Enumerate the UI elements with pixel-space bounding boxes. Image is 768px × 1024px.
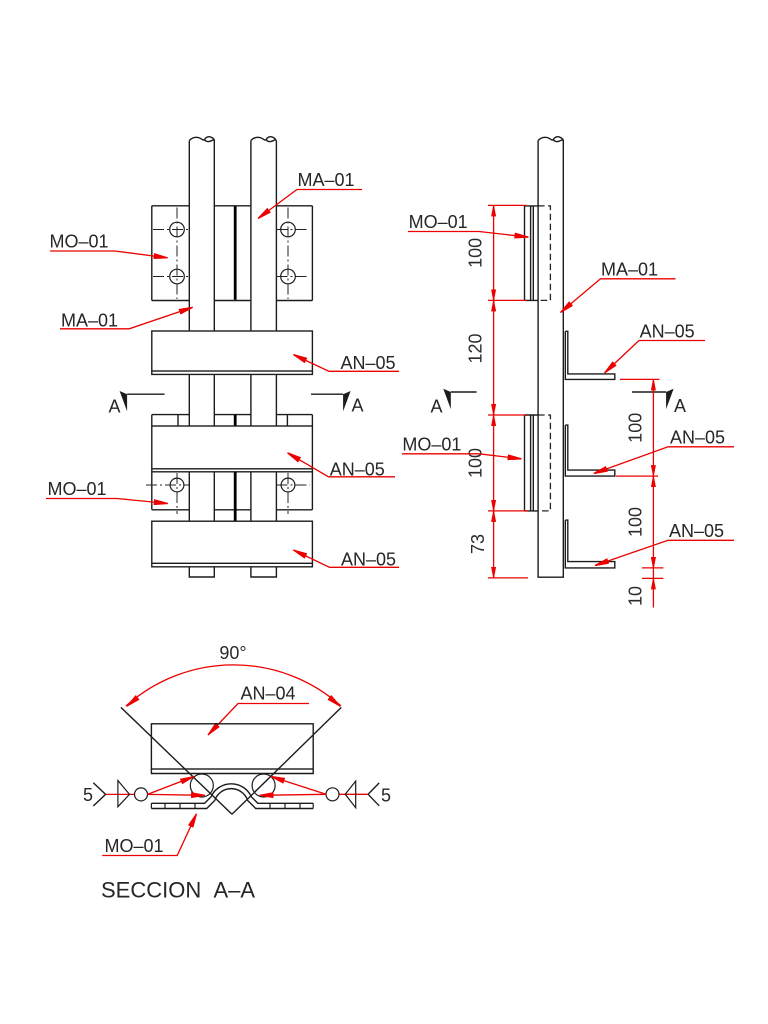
label AN-04 [208, 684, 309, 736]
svg-text:100: 100 [626, 507, 646, 537]
left dimension chain line [493, 205, 495, 578]
label MA-01 (side view) [561, 260, 676, 313]
label AN-05 #1 [293, 353, 399, 373]
label MO-01 (upper left, points to top plate) [50, 232, 168, 258]
svg-text:MO–01: MO–01 [105, 836, 164, 856]
label MA-01 (lower left, points to left bar) [60, 307, 193, 330]
section cut line A-A right flag [311, 391, 364, 416]
svg-text:100: 100 [626, 413, 646, 443]
dim arrows 100 right top [652, 380, 654, 391]
dim arrows 10 (outside) [652, 558, 654, 568]
lower clamp plate MO-01 visible band with bolts [152, 472, 313, 510]
svg-text:10: 10 [626, 586, 646, 606]
svg-text:100: 100 [466, 238, 486, 268]
plate MO-01 upper hidden leaf (dashed) [538, 206, 550, 301]
centerlines lower plate [146, 473, 310, 514]
weld bead left [190, 774, 213, 797]
svg-text:MA–01: MA–01 [298, 170, 355, 190]
joint seam heavy line lower [234, 472, 237, 521]
svg-text:MO–01: MO–01 [409, 212, 468, 232]
bolt hole lower-left [170, 478, 184, 492]
weld leaders right [271, 777, 326, 795]
bent plate MO-01 outer edge [151, 784, 313, 804]
weld symbol right fishtail [368, 783, 379, 806]
angle AN-05 top (side view L-profile) [565, 331, 615, 379]
svg-text:SECCION A–A: SECCION A–A [101, 878, 255, 903]
svg-text:5: 5 [381, 786, 391, 806]
weld symbol right circle [326, 788, 339, 801]
right dimension chain extension lines [616, 379, 663, 578]
svg-text:AN–05: AN–05 [670, 428, 725, 448]
bent plate MO-01 inner edge [151, 789, 313, 809]
plate MO-01 lower hidden leaf (dashed) [538, 415, 550, 511]
svg-text:A: A [352, 396, 364, 416]
weld symbol left fillet triangle [118, 781, 130, 807]
joint seam heavy line through strip [234, 415, 237, 426]
label AN-05 #3 [293, 550, 399, 570]
bevel edge left (45 deg line) [121, 707, 232, 814]
90 degree angle arc [126, 665, 341, 706]
label MO-01 #2 (points to lower plate) [46, 479, 168, 504]
label AN-05 (side view middle) [594, 428, 734, 474]
section cut line A-A right flag (side view) [632, 389, 686, 416]
bolt hole mid-right [281, 269, 296, 284]
bolt hole top-left [170, 222, 185, 237]
bolt hole mid-left [170, 269, 185, 284]
label MO-01 (section) [102, 814, 196, 856]
svg-text:90°: 90° [219, 643, 246, 663]
bolt hole top-right [281, 222, 296, 237]
bar MA-01 (side view) [538, 137, 563, 577]
label MO-01 (side view lower) [402, 435, 522, 459]
svg-text:AN–05: AN–05 [669, 521, 724, 541]
weld symbol left circle [135, 788, 148, 801]
bar MA-01 right (front view) [251, 137, 277, 577]
svg-text:AN–05: AN–05 [341, 550, 396, 570]
svg-text:AN–05: AN–05 [341, 353, 396, 373]
svg-text:A: A [674, 396, 686, 416]
section cut line A-A left flag (side view) [431, 389, 477, 417]
label AN-05 (side view bottom) [595, 521, 734, 566]
svg-text:100: 100 [466, 448, 486, 478]
label MO-01 (side view upper) [408, 212, 528, 237]
angle AN-05 middle (side view L-profile) [565, 425, 615, 476]
bevel edge right (45 deg line) [232, 707, 341, 814]
weld leaders left [148, 777, 195, 795]
lower clamp plates MO-01 top edge strip (front view) [152, 415, 313, 426]
svg-text:120: 120 [466, 333, 486, 363]
bolt hole lower-right [281, 478, 295, 492]
svg-text:73: 73 [468, 534, 488, 554]
svg-text:MA–01: MA–01 [601, 260, 658, 280]
dim arrows 120 [493, 301, 495, 312]
angle AN-05 #3 (front view) [152, 521, 313, 567]
plate MO-01 upper (side view, visible leaves) [525, 206, 539, 301]
weld symbol right leader line [340, 793, 369, 795]
weld bead right [252, 774, 275, 797]
right dimension chain line [652, 379, 654, 607]
section cut line A-A left flag [109, 391, 165, 417]
svg-text:AN–04: AN–04 [241, 684, 296, 704]
svg-text:MO–01: MO–01 [402, 435, 461, 455]
svg-text:5: 5 [83, 785, 93, 805]
angle AN-05 #1 (front view) [152, 331, 313, 374]
svg-text:MO–01: MO–01 [50, 232, 109, 252]
plate MO-01 lower (side view, visible leaves) [525, 415, 539, 511]
label MA-01 (top, points to right bar) [258, 170, 362, 219]
plate AN-04 (section) [151, 724, 313, 774]
svg-text:MA–01: MA–01 [61, 311, 118, 331]
svg-text:A: A [431, 397, 443, 417]
svg-text:AN–05: AN–05 [640, 322, 695, 342]
label AN-05 #2 [288, 453, 396, 480]
plate MO-01 top clamp (front view) [152, 206, 313, 301]
svg-text:MO–01: MO–01 [48, 479, 107, 499]
weld symbol left leader line [106, 793, 134, 795]
left dimension chain extension lines [488, 205, 528, 578]
label AN-05 (side view top) [605, 322, 706, 374]
centerlines top plate [153, 208, 309, 300]
dim arrows 73 [493, 511, 495, 522]
bar MA-01 left (front view) [189, 137, 214, 577]
dim arrows 100 mid [493, 416, 495, 427]
svg-text:A: A [109, 397, 121, 417]
weld symbol left fishtail [93, 783, 105, 806]
weld symbol right fillet triangle [345, 781, 356, 808]
joint seam between middle plates MA-01 (heavy line) [234, 207, 237, 300]
bent plate end caps and ticks [151, 803, 313, 808]
angle AN-05 #2 (front view) [152, 426, 313, 472]
angle AN-05 bottom (side view L-profile) [565, 520, 615, 568]
dim arrows 100 right bottom [652, 477, 654, 488]
dim arrows 100 top [493, 206, 495, 217]
